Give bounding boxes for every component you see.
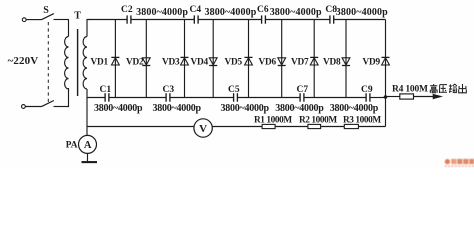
resistor R3 xyxy=(344,124,358,128)
wire column node 3 xyxy=(184,20,186,98)
diode VD2 xyxy=(142,58,150,65)
wire input bottom xyxy=(25,106,41,108)
ground xyxy=(87,153,89,161)
terminal top input xyxy=(22,18,26,22)
arrow high voltage output xyxy=(433,94,442,99)
wire secondary top lead xyxy=(87,20,90,37)
capacitor C8 xyxy=(329,15,331,23)
wire column node 5 xyxy=(248,20,250,98)
diode VD4 xyxy=(209,58,217,65)
wire switch to transformer top xyxy=(54,19,70,21)
wire column node 1 xyxy=(114,20,116,98)
wire switch to transformer bottom xyxy=(54,106,69,108)
wire top rail xyxy=(89,19,127,21)
switch S blade top xyxy=(41,14,54,20)
resistor R4 xyxy=(400,94,414,99)
voltmeter V xyxy=(194,119,212,137)
diode VD3 xyxy=(181,58,189,65)
wire column node 7 xyxy=(313,20,315,98)
diode VD6 xyxy=(278,58,286,65)
label high voltage output 高压输出 xyxy=(430,84,437,93)
watermark logo xyxy=(445,159,474,167)
wire column node 6 xyxy=(281,20,283,98)
diode VD7 xyxy=(310,58,318,65)
resistor R1 xyxy=(262,124,275,128)
wire bottom rail xyxy=(87,126,194,128)
node output junction xyxy=(384,95,388,99)
wire column node 4 xyxy=(212,20,214,98)
diode VD1 xyxy=(112,58,120,65)
wire secondary bottom lead down to ammeter xyxy=(86,89,88,136)
capacitor C9 xyxy=(365,93,367,102)
wire primary bottom lead xyxy=(68,88,70,107)
diode VD9 xyxy=(382,58,390,65)
switch gang dashed link xyxy=(47,22,49,103)
transformer T primary winding xyxy=(65,37,69,90)
wire middle rail xyxy=(87,97,105,99)
wire column node 8 xyxy=(345,20,347,98)
capacitor C5 xyxy=(233,93,235,102)
diode VD5 xyxy=(245,58,253,65)
capacitor C3 xyxy=(165,93,167,102)
capacitor C6 xyxy=(261,15,263,23)
terminal bottom input xyxy=(22,105,26,109)
resistor R2 xyxy=(308,124,321,128)
wire primary top lead xyxy=(68,20,70,37)
wire column node 9 xyxy=(385,20,387,127)
switch S blade bottom xyxy=(42,101,54,107)
capacitor C1 xyxy=(104,93,106,102)
wire column node 2 xyxy=(145,20,147,98)
transformer core xyxy=(77,29,79,96)
wire to R4 xyxy=(386,96,400,98)
capacitor C4 xyxy=(193,15,195,23)
capacitor C7 xyxy=(299,93,301,102)
ammeter PA xyxy=(79,135,97,153)
wire R4 to arrow xyxy=(414,96,435,98)
capacitor C2 xyxy=(126,15,128,23)
wire input top xyxy=(26,19,41,21)
diode VD8 xyxy=(342,58,350,65)
transformer T secondary winding xyxy=(83,37,87,90)
